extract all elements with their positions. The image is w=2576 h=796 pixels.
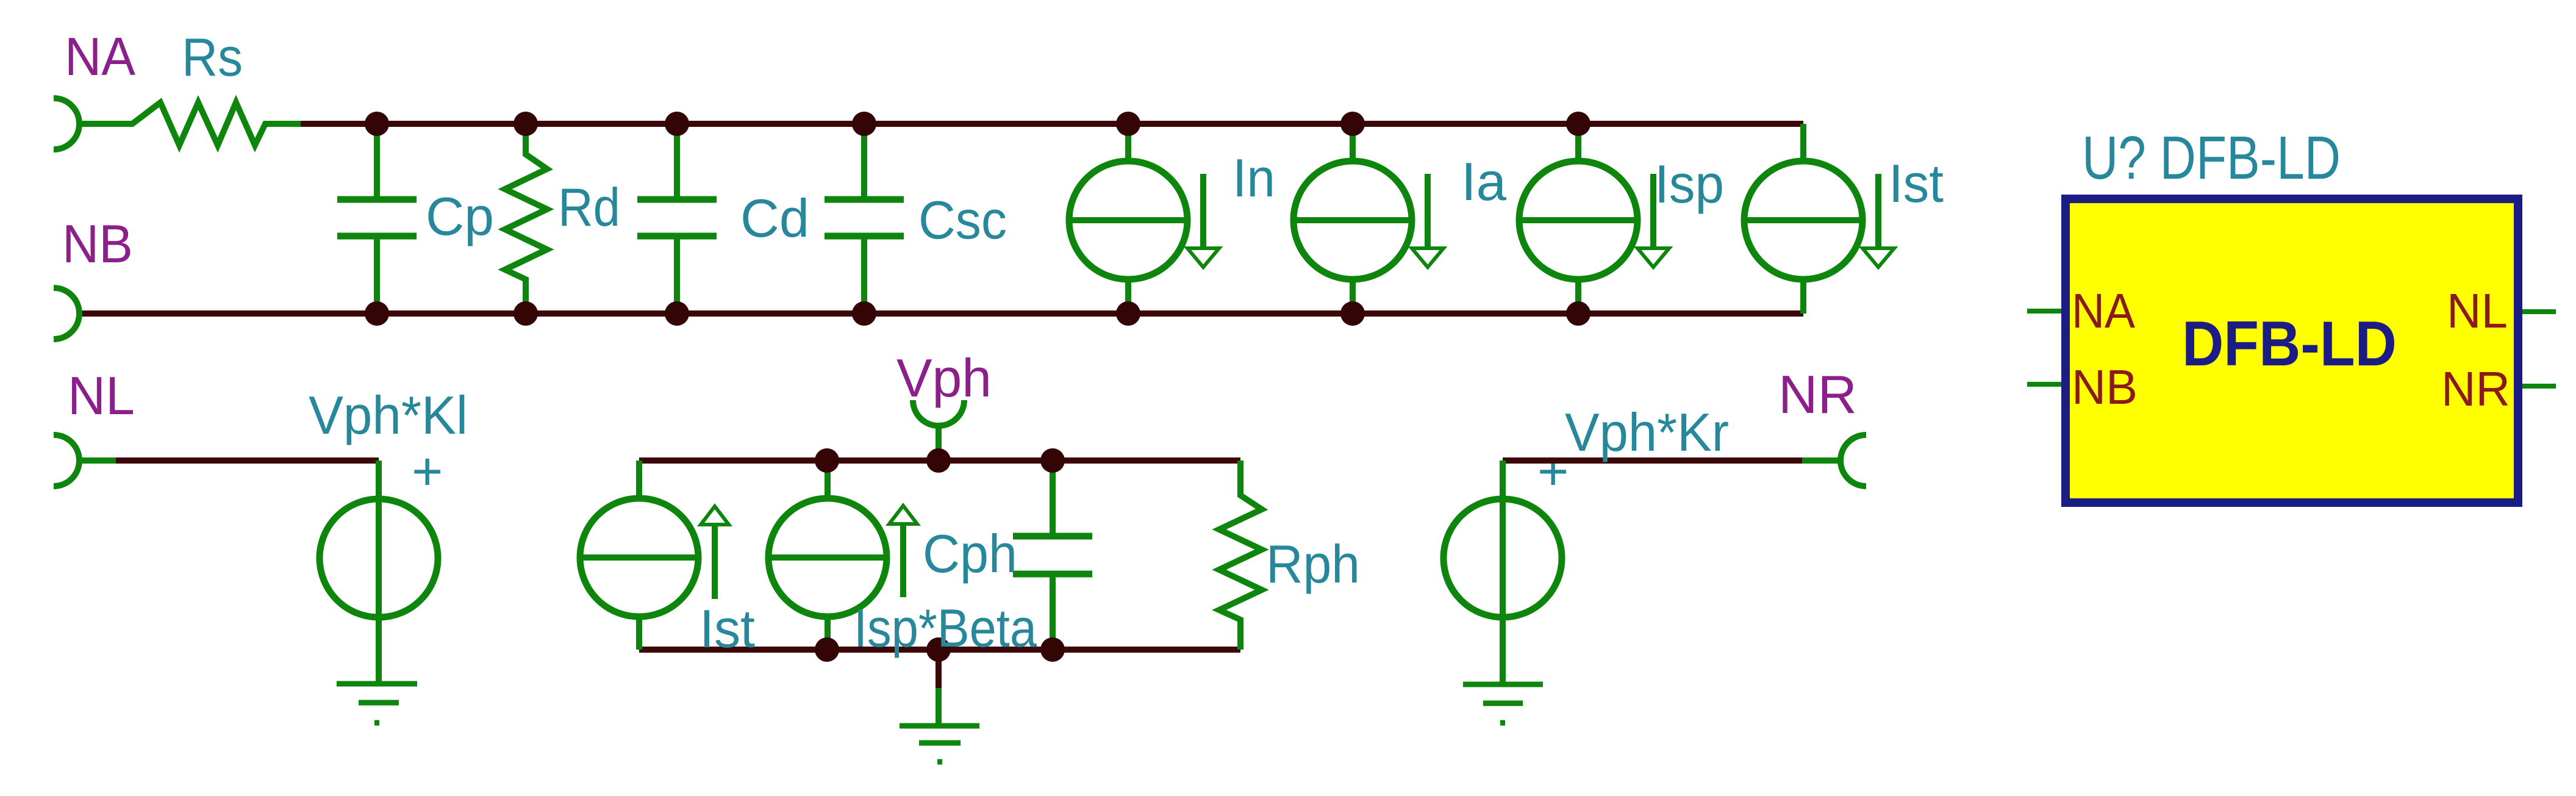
svg-text:NA: NA [65,26,135,87]
svg-text:U? DFB-LD: U? DFB-LD [2082,124,2341,192]
svg-text:NB: NB [62,213,133,274]
svg-text:Isp*Beta: Isp*Beta [854,598,1037,658]
svg-text:Rd: Rd [558,177,620,237]
svg-text:In: In [1233,148,1275,208]
svg-text:Vph*Kl: Vph*Kl [309,385,468,445]
svg-text:NR: NR [1778,364,1857,425]
svg-text:Cp: Cp [426,186,494,246]
svg-text:Ist: Ist [699,598,755,659]
svg-text:+: + [1537,441,1569,501]
svg-text:Ia: Ia [1461,151,1506,212]
svg-text:+: + [412,441,443,501]
svg-text:Cd: Cd [740,188,809,248]
svg-text:Ist: Ist [1889,153,1944,213]
svg-text:Rph: Rph [1266,534,1360,594]
svg-text:DFB-LD: DFB-LD [2182,309,2397,379]
svg-text:Csc: Csc [918,190,1007,250]
svg-text:Vph: Vph [896,348,992,408]
svg-text:Vph*Kr: Vph*Kr [1565,402,1729,462]
svg-text:NR: NR [2441,362,2510,416]
svg-text:Rs: Rs [182,27,243,87]
svg-text:NA: NA [2072,284,2136,338]
svg-text:NB: NB [2072,360,2138,414]
svg-text:NL: NL [68,365,135,426]
svg-text:NL: NL [2447,284,2508,338]
svg-text:Cph: Cph [923,523,1017,584]
svg-text:Isp: Isp [1655,154,1724,214]
